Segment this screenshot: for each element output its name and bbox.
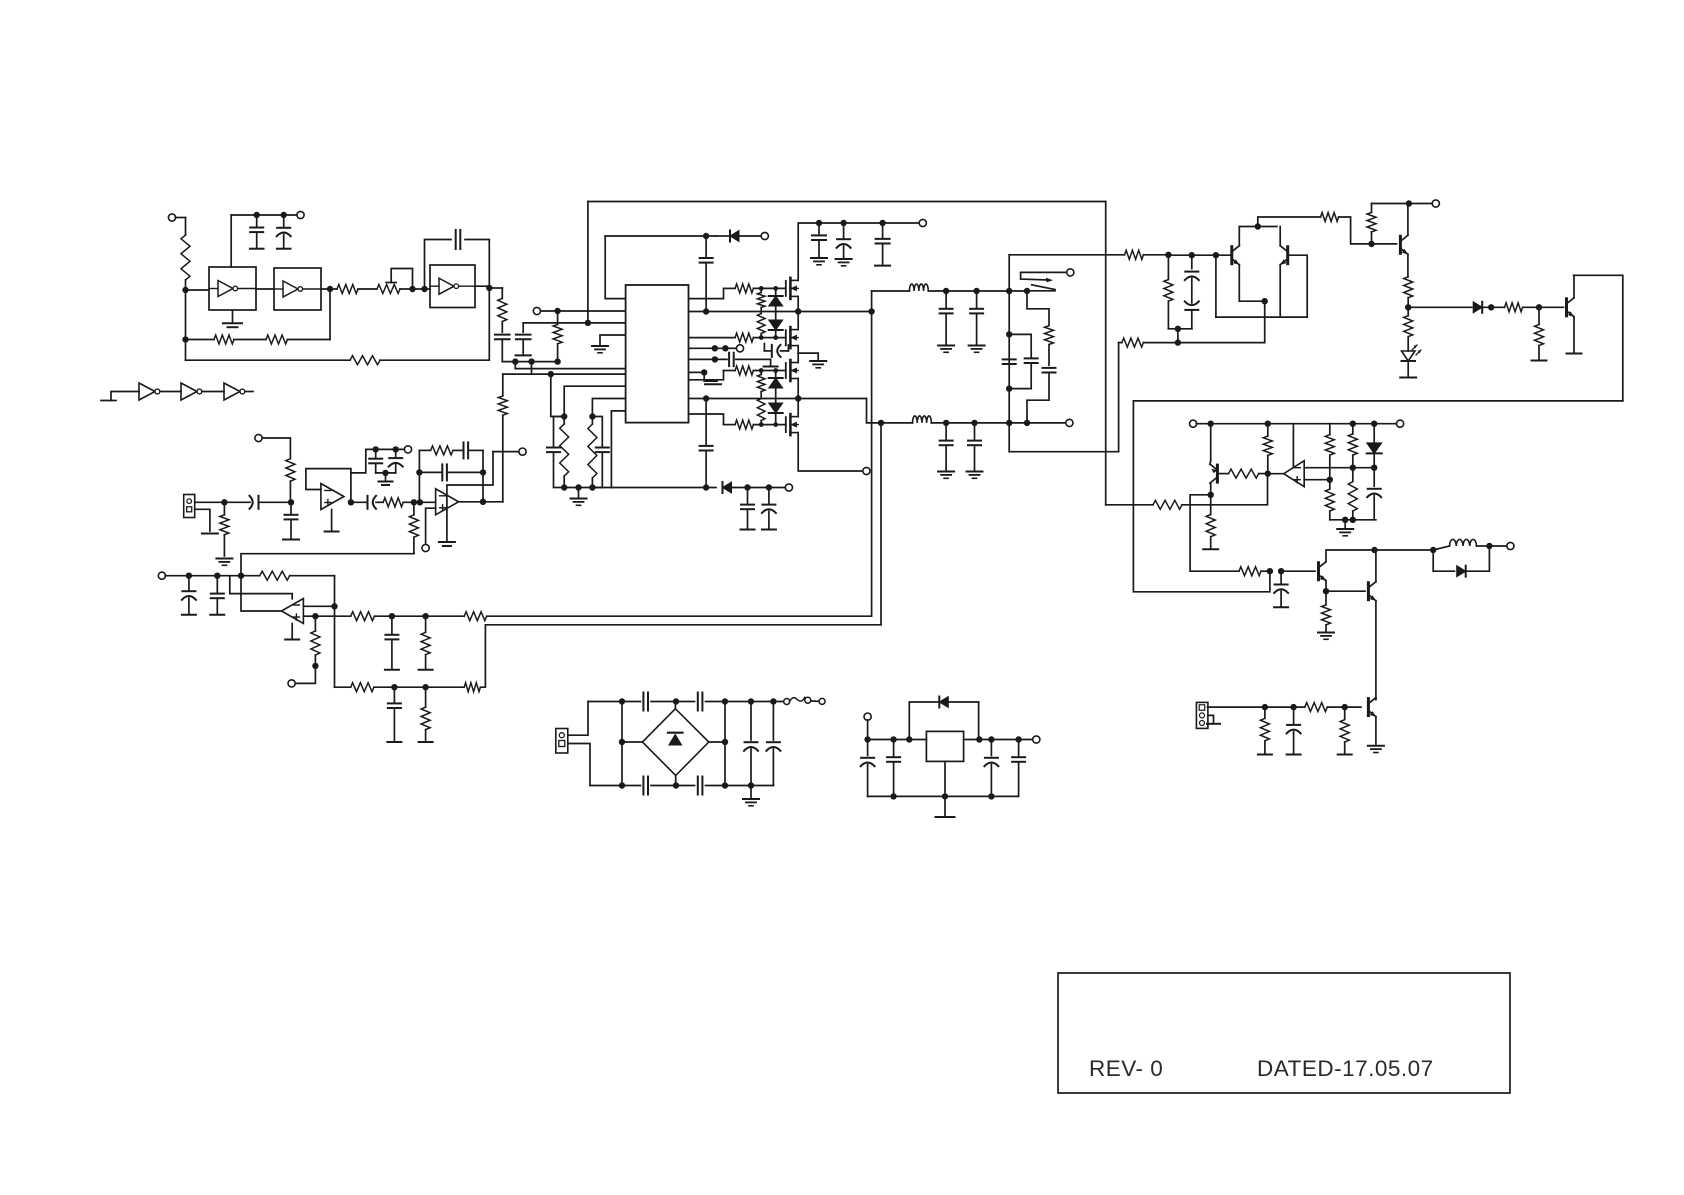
node opamp1 in bbox=[288, 499, 294, 505]
wire drv out bbox=[1258, 217, 1321, 227]
wire q5-q6 base bbox=[1326, 590, 1365, 592]
node g1 bbox=[561, 484, 567, 490]
node bootB bbox=[712, 356, 718, 362]
capacitor C vcc2a bbox=[741, 488, 755, 530]
node sense1 r bbox=[422, 613, 428, 619]
capacitor C fbi 1 polarized bbox=[182, 576, 196, 615]
wire rail hf1b bbox=[928, 290, 1027, 292]
wire fb input rail bbox=[189, 575, 241, 577]
node drv in bbox=[1165, 252, 1171, 258]
op-amp U3B bbox=[436, 489, 459, 515]
resistor R osc series1 bbox=[337, 285, 377, 294]
wire bootC bar bbox=[704, 372, 721, 384]
node opamp2 in b bbox=[417, 499, 423, 505]
diode D vcc1 bbox=[716, 231, 762, 242]
node sense2 r bbox=[422, 684, 428, 690]
resistor R cmp2 dn bbox=[1348, 468, 1357, 520]
resistor R sig shunt bbox=[1535, 307, 1544, 359]
resistor R sense2 bbox=[464, 612, 487, 621]
node fb right bbox=[480, 469, 486, 475]
node cm b bbox=[1371, 465, 1377, 471]
open terminal Q4 src bbox=[863, 467, 870, 474]
wire Q6 collector bbox=[1375, 550, 1377, 582]
wire branch 515 bbox=[514, 362, 516, 369]
node b564 bbox=[561, 413, 567, 419]
resistor R gate1 bbox=[724, 284, 786, 293]
wire fb vertical minus bbox=[416, 450, 422, 502]
resistor R comp fb bbox=[1263, 424, 1272, 474]
node drv join bbox=[1175, 326, 1181, 332]
node f1 b bbox=[973, 288, 979, 294]
node psu t2 bbox=[673, 698, 679, 704]
node osc fb bbox=[182, 336, 188, 342]
svg-text:REV- 0: REV- 0 bbox=[1089, 1056, 1163, 1081]
inverter U2C bbox=[224, 383, 245, 400]
node q7b b bbox=[1290, 704, 1296, 710]
wire opamp1 fb bbox=[306, 469, 354, 506]
resistor R q5e bbox=[1322, 591, 1331, 631]
wire Q5 collector bbox=[1326, 550, 1371, 562]
node zr4a bbox=[759, 422, 764, 427]
capacitor C box par bbox=[1009, 334, 1037, 388]
resistor R cmp2 up bbox=[1348, 424, 1357, 468]
capacitor C psu b2 bbox=[698, 777, 703, 795]
resistor R osc series2 trimmer bbox=[377, 285, 430, 294]
wire Q7 emitter bbox=[1375, 717, 1377, 744]
node fbi r bbox=[238, 573, 244, 579]
wire to jumper term bbox=[295, 666, 315, 684]
resistor R sig bbox=[1505, 303, 1564, 312]
capacitor C reg4 bbox=[1012, 740, 1025, 797]
ground QF emitter bbox=[1567, 353, 1582, 355]
open terminal bias rail bbox=[404, 446, 411, 453]
wire fb vertical left bbox=[871, 291, 873, 616]
capacitor C psu t2 bbox=[698, 693, 703, 711]
ground U1A bbox=[223, 310, 242, 327]
node drive a bbox=[1267, 568, 1273, 574]
open terminal vcc drv bbox=[1432, 200, 1439, 207]
ground Q7 bbox=[1368, 746, 1384, 753]
transistor QT npn bbox=[1400, 235, 1408, 254]
node crail d bbox=[1371, 421, 1377, 427]
wire boot pinC bbox=[689, 371, 705, 373]
wire gnd rail y487 bbox=[564, 487, 611, 489]
resistor R fb gain bbox=[241, 571, 335, 580]
capacitor C reg1 polarized bbox=[861, 740, 875, 797]
resistor R zclamp1b bbox=[757, 314, 765, 338]
transistor Q7 npn bbox=[1368, 698, 1376, 717]
node sense1 c bbox=[389, 613, 395, 619]
wire mid ground bbox=[798, 353, 826, 368]
node U1C out bbox=[486, 285, 492, 291]
open terminal vcc2 bbox=[785, 484, 792, 491]
node reg l2 bbox=[890, 736, 896, 742]
connector CN3 mute bbox=[1196, 702, 1208, 728]
capacitor C reg3 polarized bbox=[984, 740, 998, 797]
wire deg left bbox=[1215, 255, 1217, 317]
wire emit drop bbox=[1264, 301, 1266, 342]
wire emitter net drop bbox=[1118, 343, 1120, 452]
resistor R led1 bbox=[1404, 277, 1413, 308]
diode D reg bypass bbox=[909, 697, 978, 740]
node g2 bbox=[575, 484, 581, 490]
ground jumper bbox=[439, 542, 455, 546]
resistor R box top bbox=[1125, 250, 1169, 259]
capacitor C sense1 bbox=[385, 616, 399, 670]
resistor R snub bbox=[1045, 326, 1054, 366]
node reg r2 bbox=[988, 736, 994, 742]
node rsig bbox=[1536, 304, 1542, 310]
node r362 a bbox=[512, 358, 518, 364]
wire Q2 gate link bbox=[785, 344, 787, 346]
wire top join bbox=[1239, 226, 1277, 228]
wire box2 top bbox=[1133, 400, 1622, 402]
node psu t3 bbox=[722, 698, 728, 704]
resistor R input shunt bbox=[220, 502, 229, 556]
node rail1 c bbox=[868, 308, 874, 314]
resistor R osc fb1 bbox=[186, 335, 266, 344]
resistor R drv bbox=[1164, 255, 1173, 329]
node plus bias bbox=[312, 663, 318, 669]
node U1B out bbox=[327, 286, 333, 292]
wire box2 right bbox=[1574, 275, 1623, 401]
wire QP e link bbox=[1209, 461, 1212, 464]
wire Q1 drain bbox=[798, 223, 919, 278]
wire BR right bbox=[709, 739, 728, 745]
node psu t5 bbox=[770, 698, 776, 704]
capacitor C bias 2 polarized bbox=[389, 449, 403, 473]
node dl2 a bbox=[703, 484, 709, 490]
node cg a bbox=[1342, 517, 1348, 523]
wire relay RC branch bbox=[1027, 291, 1049, 326]
wire psu bottom rail bbox=[590, 785, 773, 787]
resistor R drv out bbox=[1321, 213, 1397, 244]
capacitor C drive bbox=[1274, 571, 1288, 607]
wire long to lower opamp bbox=[241, 554, 414, 576]
inductor L1 bbox=[909, 284, 928, 291]
wire ac1 bbox=[568, 702, 588, 736]
zener Z2 bbox=[769, 320, 783, 338]
wire osc fb down bbox=[488, 288, 490, 360]
wire reg gnd rail bbox=[868, 795, 1019, 797]
wire gate2 pin bbox=[689, 337, 736, 339]
resistor R term branch bbox=[553, 311, 562, 362]
wire boot pinB bbox=[689, 358, 728, 360]
node led junction bbox=[1405, 304, 1411, 310]
open terminal boot bbox=[736, 345, 743, 352]
ground led bbox=[1400, 377, 1416, 379]
wire Q1 source bbox=[797, 299, 799, 312]
wire led tap bbox=[1408, 306, 1472, 308]
wire Q3 drain bbox=[797, 353, 799, 360]
open terminal plus bias bbox=[288, 680, 295, 687]
resistor R to sum bbox=[409, 502, 418, 553]
wire bias rail bbox=[366, 448, 405, 450]
resistor R b564 bbox=[560, 417, 569, 488]
wire QP emitter bbox=[1210, 424, 1212, 461]
wire QL emitter bbox=[1239, 265, 1264, 302]
capacitor C fb lower bbox=[419, 464, 483, 480]
mosfet Q3 bbox=[786, 360, 798, 381]
wire Q2 source bbox=[797, 348, 799, 353]
node reg l1 bbox=[864, 736, 870, 742]
wire box left edge bbox=[1008, 255, 1010, 452]
node supply c1 bbox=[254, 212, 260, 218]
op-amp U3A bbox=[321, 484, 344, 510]
capacitor C vcc1 bbox=[700, 236, 713, 312]
resistor R cmp1 dn bbox=[1325, 480, 1334, 520]
led LED1 bbox=[1402, 345, 1422, 376]
wire opamp2 plus terminal bbox=[426, 508, 436, 544]
node rail1 a bbox=[703, 308, 709, 314]
node psu b2 bbox=[673, 782, 679, 788]
trimmer wiper route bbox=[386, 269, 412, 290]
wire reg gnd pin bbox=[936, 761, 955, 817]
node rail1 b bbox=[795, 308, 801, 314]
connector CN2 ac bbox=[556, 729, 568, 754]
wire Q6 emitter long bbox=[1375, 601, 1377, 700]
ground sig shunt bbox=[1532, 360, 1547, 362]
wire boot pinA bbox=[689, 347, 726, 349]
ground U4 bbox=[285, 624, 299, 640]
capacitor C osc supply 1 bbox=[250, 215, 264, 249]
capacitor C drv bipolar2 bbox=[1185, 301, 1199, 328]
resistor R mute1 bbox=[1258, 707, 1272, 754]
node psu b1 bbox=[619, 782, 625, 788]
resistor R b592 bbox=[588, 417, 597, 488]
wire pin y374 rail bbox=[503, 373, 626, 375]
open terminal reg out bbox=[1033, 736, 1040, 743]
inverter U2B bbox=[181, 383, 202, 400]
capacitor C interstage bbox=[351, 496, 383, 509]
node drive b bbox=[1278, 568, 1284, 574]
node reg l3 bbox=[906, 736, 912, 742]
node osc in3 a bbox=[409, 286, 415, 292]
wire top rail bbox=[588, 201, 1106, 203]
resistor R cmp1 up bbox=[1325, 424, 1334, 480]
node box e2 bbox=[1006, 385, 1012, 391]
wire Q7 collector bbox=[1375, 698, 1377, 700]
wire comp minus bbox=[1304, 467, 1374, 469]
node f2 b bbox=[971, 420, 977, 426]
wire gate1 pin bbox=[689, 288, 724, 298]
resistor R zclamp2b bbox=[757, 399, 765, 425]
wire reg rail right bbox=[964, 739, 1033, 741]
wire Q3 src bbox=[797, 381, 799, 399]
wire rail out1 bbox=[689, 311, 872, 313]
wire psu top rail bbox=[588, 701, 784, 703]
wire Q4 source bbox=[798, 435, 863, 471]
node zr2b bbox=[773, 335, 778, 340]
node comp out bbox=[1265, 470, 1271, 476]
wire comp in bbox=[1106, 474, 1268, 510]
wire diode line2 bbox=[611, 487, 716, 489]
wire U2C out bbox=[245, 391, 253, 393]
wire out to inductor bbox=[1375, 549, 1434, 551]
node pin374 bbox=[548, 371, 554, 377]
ground input shunt bbox=[216, 559, 232, 566]
wire VCC diode line bbox=[605, 235, 716, 237]
capacitor C psu res2 polarized bbox=[766, 702, 780, 786]
node rail2 b bbox=[795, 395, 801, 401]
node sense2 c bbox=[391, 684, 397, 690]
resistor R poweramp in bbox=[498, 374, 507, 502]
wire drive base bbox=[1281, 570, 1315, 572]
wire QR collector bbox=[1279, 227, 1281, 246]
node f1 a bbox=[943, 288, 949, 294]
node y311 bbox=[554, 308, 560, 314]
wire U4 out bbox=[241, 576, 281, 611]
node cm a bbox=[1350, 465, 1356, 471]
wire rail y311 bbox=[540, 310, 625, 312]
capacitor C f1b bbox=[969, 291, 985, 352]
node psu t1 bbox=[619, 698, 625, 704]
node opamp2 in a bbox=[411, 499, 417, 505]
bridge rectifier BR1 bbox=[642, 702, 708, 786]
node zr3b bbox=[773, 368, 778, 373]
open terminal speaker bbox=[1489, 542, 1514, 549]
wire pin y398 left bbox=[592, 399, 625, 417]
wire BR left bbox=[619, 739, 643, 745]
wire ac2 bbox=[568, 744, 590, 786]
node r362 c bbox=[554, 358, 560, 364]
open terminal bias bbox=[255, 434, 262, 441]
open terminal fb input bbox=[158, 572, 189, 579]
transistor Q6 npn bbox=[1368, 582, 1376, 601]
resistor R osc bias vertical bbox=[181, 218, 190, 291]
wire deg bottom bbox=[1216, 316, 1307, 318]
resistor R qpc bbox=[1206, 495, 1215, 548]
capacitor C rail2 bbox=[700, 399, 713, 488]
wire rail hf1 bbox=[872, 290, 910, 292]
node f1 d bbox=[1024, 288, 1030, 294]
open terminal relay bbox=[1067, 269, 1074, 276]
wire comp rail bbox=[1211, 423, 1375, 425]
wire long vertical from top rail bbox=[587, 202, 589, 323]
node opamp2 out bbox=[480, 499, 486, 505]
capacitor C osc-out bbox=[495, 335, 510, 362]
wire QR emitter bbox=[1279, 265, 1281, 317]
node psu b3 bbox=[722, 782, 728, 788]
node bias c2 bbox=[393, 446, 399, 452]
capacitor C b554 bbox=[547, 417, 564, 488]
open terminal supply bbox=[297, 211, 304, 218]
wire QT emitter bbox=[1407, 254, 1409, 276]
transistor QR npn mirrored bbox=[1280, 246, 1288, 265]
wire branch550 bbox=[551, 374, 564, 416]
node vcc drv bbox=[1406, 200, 1412, 206]
wire rail hf2b bbox=[931, 422, 1027, 424]
node out rail bbox=[1371, 547, 1377, 553]
wire main vertical bbox=[1105, 202, 1107, 505]
node zr4b bbox=[773, 422, 778, 427]
wire pin gnd stub bbox=[592, 335, 626, 353]
node f2 d bbox=[1024, 420, 1030, 426]
open terminal comp rail2 bbox=[1397, 420, 1404, 427]
connector CN1 input bbox=[184, 495, 195, 518]
node dl2 b bbox=[744, 484, 750, 490]
wire comp plus bbox=[1304, 479, 1330, 481]
resistor R zclamp1a bbox=[757, 288, 765, 313]
inverter U1A boxed bbox=[209, 267, 256, 310]
wire QP collector net bbox=[1210, 483, 1212, 495]
wire gate4 pin bbox=[689, 414, 724, 425]
transistor QP pnp left bbox=[1210, 464, 1218, 483]
node zr1b bbox=[773, 286, 778, 291]
wire rail y362 bbox=[502, 361, 557, 363]
open terminal caprail bbox=[919, 219, 926, 226]
node psu t4 bbox=[748, 698, 754, 704]
node crail b bbox=[1265, 421, 1271, 427]
wire QF emitter bbox=[1573, 317, 1575, 352]
wire fb vertical right bbox=[880, 423, 882, 625]
node f2 a bbox=[943, 420, 949, 426]
title text DATED bbox=[1257, 1056, 1434, 1081]
resistor R gate3 bbox=[724, 366, 786, 375]
resistor R sense2 shunt bbox=[419, 687, 433, 742]
wire supply rail bbox=[231, 214, 297, 216]
diode D out bbox=[1433, 546, 1489, 577]
node qpc bbox=[1208, 492, 1214, 498]
capacitor C psu res1 polarized bbox=[744, 702, 758, 786]
wire CN3 stub bbox=[1207, 715, 1220, 723]
resistor R bias up bbox=[262, 438, 295, 502]
wire pin y368 bbox=[515, 368, 625, 370]
capacitor C f2a bbox=[938, 423, 954, 478]
wire U1B out bbox=[321, 288, 337, 290]
node psu b4 bbox=[748, 782, 754, 788]
capacitor C boot small bbox=[729, 353, 778, 367]
node osc input junction bbox=[182, 287, 188, 293]
open terminal reg in bbox=[864, 713, 871, 740]
wire U4 input route bbox=[230, 576, 292, 599]
resistor R drive bbox=[1239, 567, 1270, 576]
capacitor C b602 bbox=[592, 417, 608, 488]
relay K1 contact bbox=[1021, 272, 1067, 290]
svg-text:DATED-17.05.07: DATED-17.05.07 bbox=[1257, 1056, 1434, 1081]
wire branch 531 bbox=[531, 362, 533, 375]
title text REV bbox=[1089, 1056, 1163, 1081]
IC U5 amplifier bbox=[626, 285, 689, 423]
wire drv join drop bbox=[1177, 329, 1179, 343]
inverter U2A bbox=[139, 383, 160, 400]
capacitor C hv2 polarized bbox=[836, 223, 852, 266]
wire out terminal lower bbox=[1027, 422, 1066, 424]
node bootA2 bbox=[722, 345, 728, 351]
wire U1A top supply bbox=[230, 215, 232, 267]
resistor R gate2 bbox=[735, 333, 786, 342]
wire sense line upper bbox=[315, 615, 350, 617]
open terminal input bias bbox=[168, 214, 185, 221]
capacitor C ref polarized bbox=[1367, 468, 1381, 520]
zener Z4 bbox=[769, 403, 783, 425]
wire Q5 emitter bbox=[1325, 581, 1327, 592]
node bootA1 bbox=[712, 345, 718, 351]
capacitor C reg2 bbox=[887, 740, 900, 797]
node zr2a bbox=[759, 335, 764, 340]
inductor L out bbox=[1433, 539, 1489, 550]
node dsig bbox=[1488, 304, 1494, 310]
ground q5e bbox=[1318, 633, 1334, 640]
wire comp gnd rail bbox=[1330, 519, 1376, 521]
wire Q4 drain bbox=[797, 399, 799, 415]
wire comp rail term bbox=[1374, 423, 1397, 425]
wire gate3 pin bbox=[689, 371, 724, 380]
node emit n bbox=[1175, 339, 1181, 345]
op-amp U6 comparator left bbox=[1284, 461, 1305, 487]
capacitor C sense2 bbox=[387, 687, 401, 742]
capacitor C pin branch bbox=[516, 323, 531, 356]
